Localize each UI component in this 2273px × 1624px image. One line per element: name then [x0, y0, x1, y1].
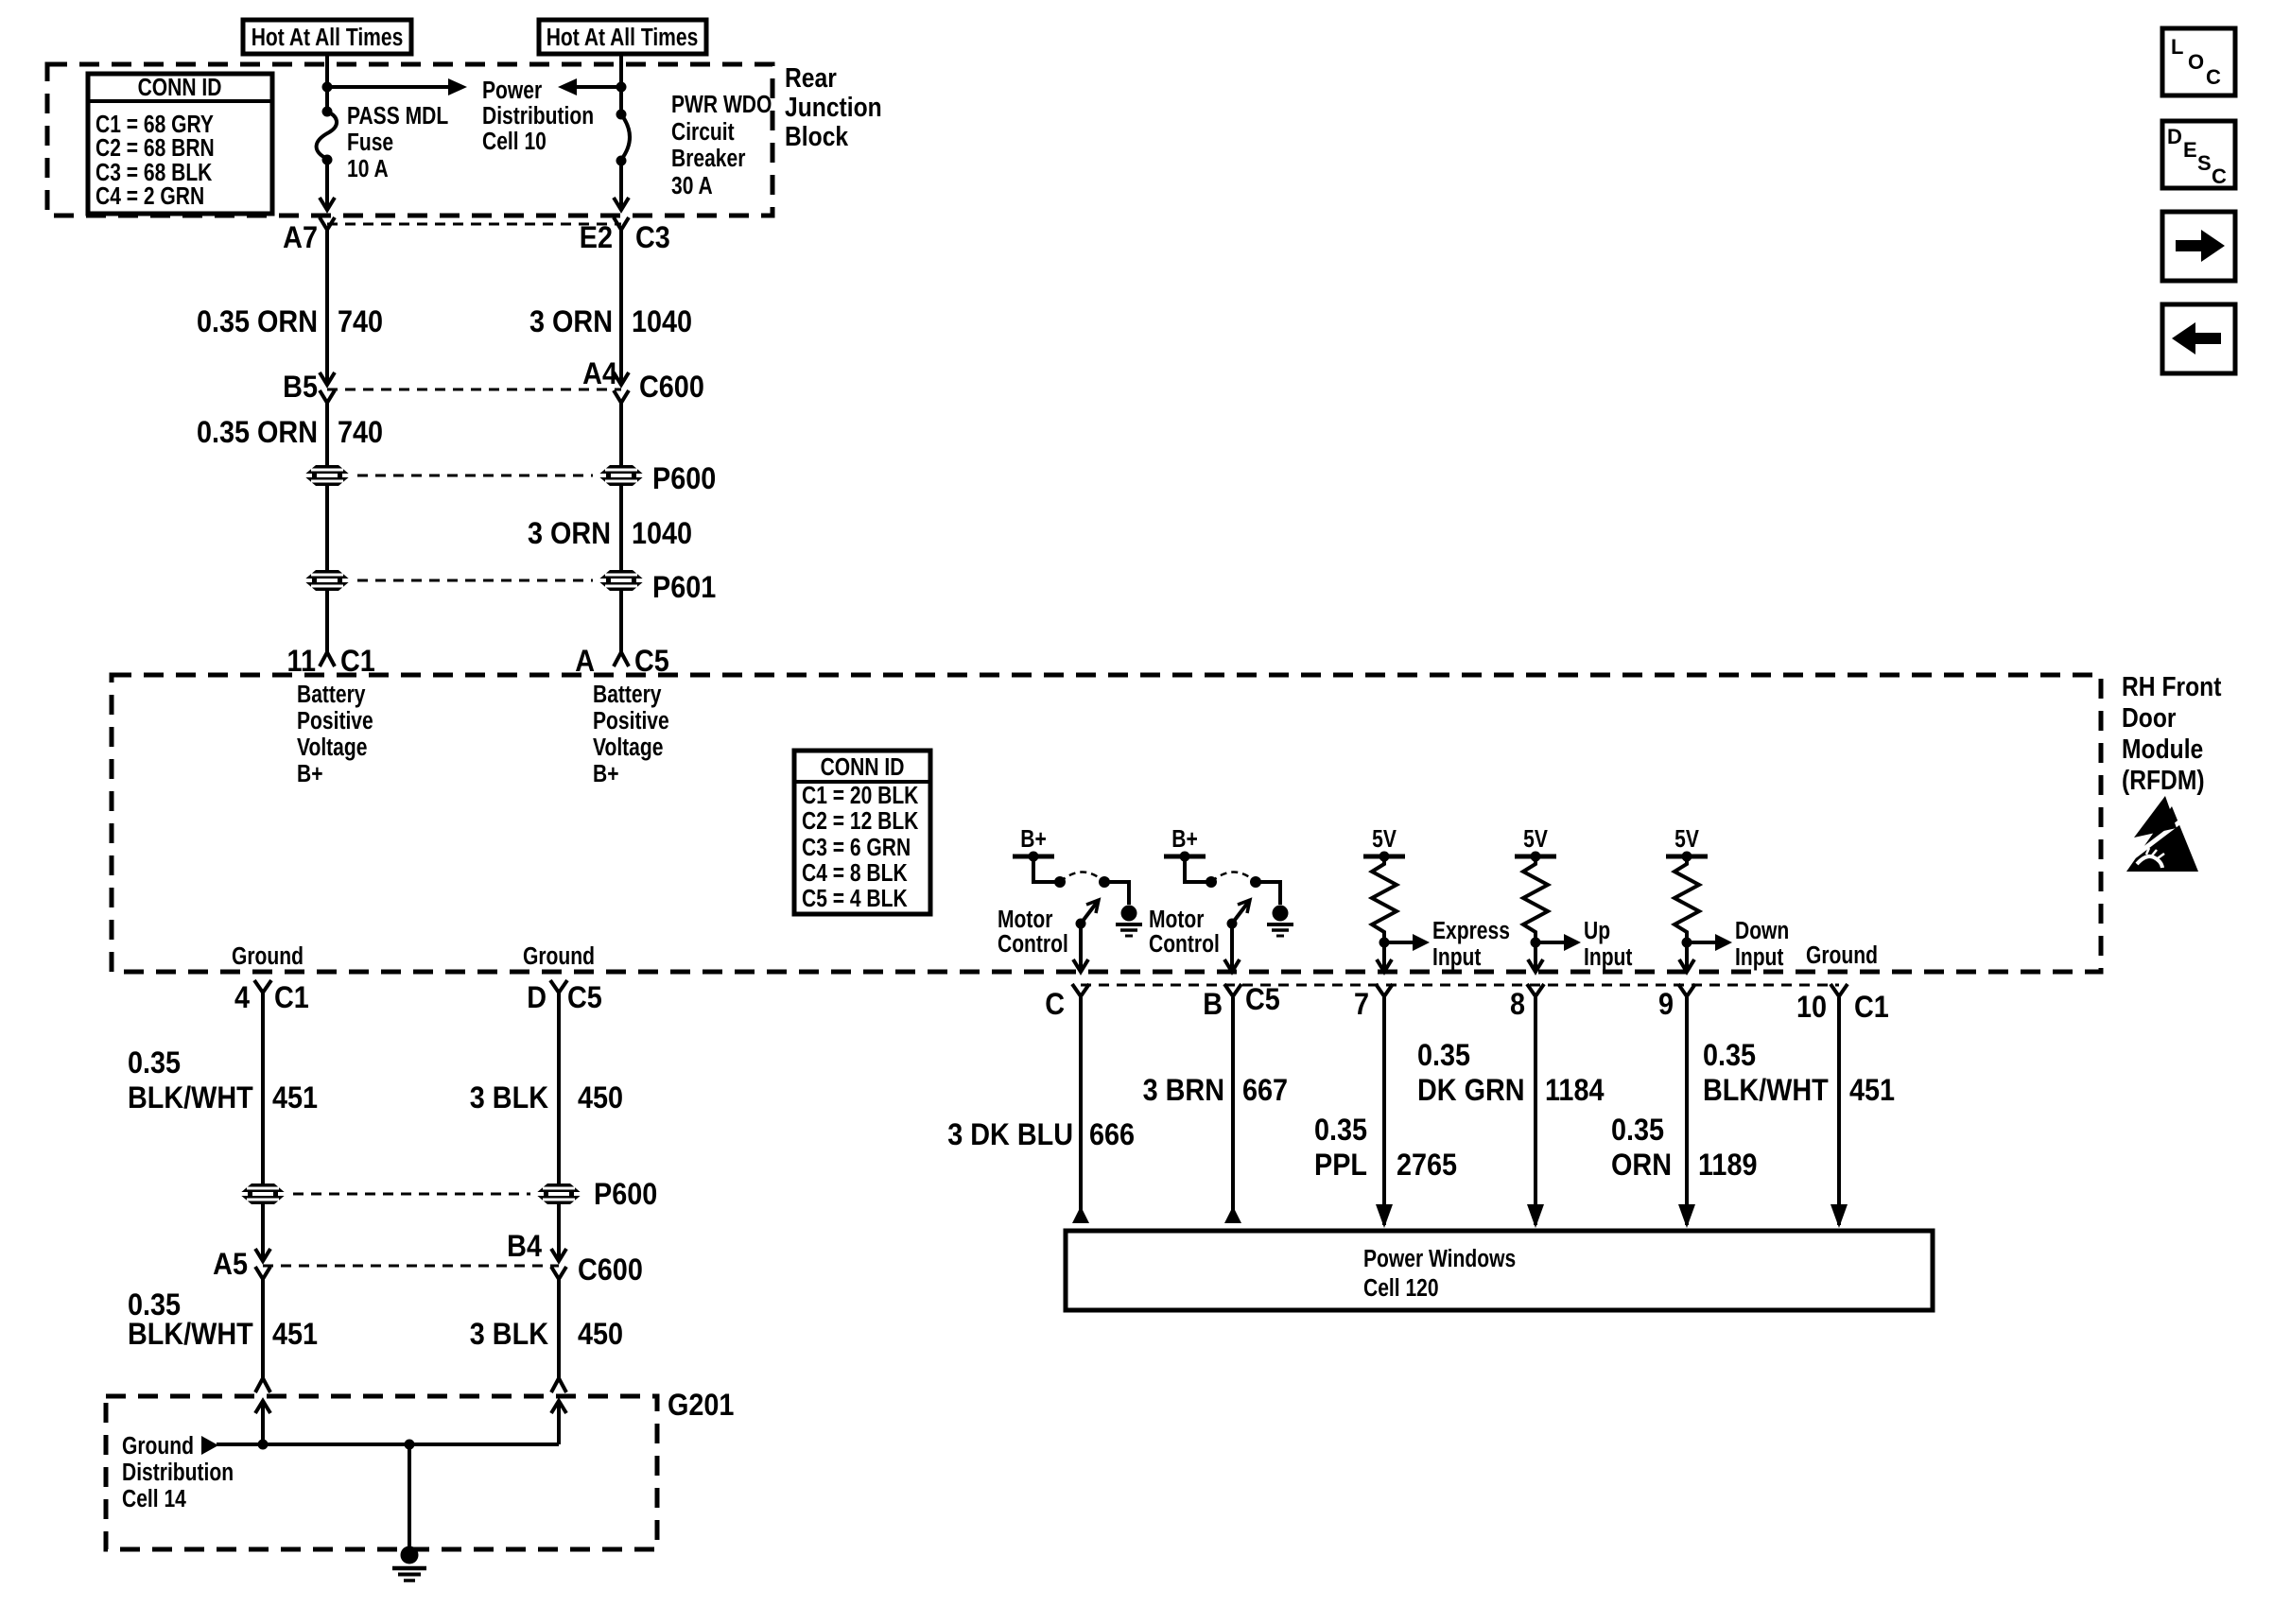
- svg-text:C4 = 2 GRN: C4 = 2 GRN: [95, 183, 204, 211]
- svg-text:Hot At All Times: Hot At All Times: [252, 25, 404, 52]
- svg-text:10: 10: [1796, 991, 1827, 1025]
- resistor (Express Input pull-up): [1372, 856, 1397, 938]
- svg-text:E: E: [2183, 138, 2197, 162]
- wire splice to connector A5: [261, 1204, 265, 1259]
- left arrow legend box: [2162, 304, 2235, 373]
- switch arm 1: [1076, 900, 1100, 929]
- node Express Input tap arrow: [1379, 934, 1431, 951]
- svg-text:C600: C600: [639, 371, 704, 405]
- svg-text:RH Front: RH Front: [2122, 671, 2221, 701]
- connector pin D C5 (ground): [527, 980, 602, 1014]
- svg-text:1040: 1040: [632, 305, 692, 339]
- svg-text:0.35: 0.35: [1703, 1039, 1756, 1073]
- splice P600 lower right: [534, 1183, 583, 1204]
- svg-text:Ground: Ground: [122, 1433, 194, 1460]
- svg-text:Rear: Rear: [785, 62, 837, 93]
- node Up Input tap arrow: [1531, 934, 1582, 951]
- svg-text:Input: Input: [1432, 944, 1482, 972]
- 5V feed (Up): [1515, 826, 1556, 861]
- switch contact dot 2: [1250, 876, 1261, 888]
- wire switch 2 to module pin: [1224, 924, 1240, 972]
- wire contact to ground 1: [1104, 882, 1129, 905]
- switch travel dashed arc 2: [1211, 872, 1256, 883]
- svg-text:C3 = 6 GRN: C3 = 6 GRN: [802, 835, 911, 862]
- label P601: [652, 571, 716, 605]
- wire B+ to switch contact 1: [1033, 856, 1066, 888]
- svg-text:Door: Door: [2122, 702, 2177, 733]
- connector B5: [283, 371, 335, 405]
- junction dot: [322, 82, 333, 93]
- wire segment A4 to splice: [619, 403, 623, 465]
- svg-text:Hot At All Times: Hot At All Times: [547, 25, 699, 52]
- splice P601 left: [303, 570, 352, 591]
- wire 0.35 PPL 2765 (pin 7): [1314, 997, 1457, 1228]
- svg-text:3 BRN: 3 BRN: [1143, 1074, 1224, 1108]
- connector A5: [213, 1248, 270, 1282]
- svg-text:7: 7: [1354, 988, 1369, 1022]
- label PASS MDL Fuse 10 A: [347, 103, 448, 183]
- ground entry arrow right: [551, 1401, 566, 1444]
- svg-text:8: 8: [1510, 988, 1525, 1022]
- svg-text:(RFDM): (RFDM): [2122, 765, 2205, 795]
- svg-text:Express: Express: [1432, 918, 1510, 945]
- ground bus wire: [217, 1443, 559, 1446]
- label Battery Positive Voltage B+ (pin 11): [297, 682, 373, 788]
- wire 0.35 BLK/WHT 451 (A5 to G201): [128, 1279, 318, 1378]
- svg-text:DK GRN: DK GRN: [1417, 1074, 1525, 1108]
- svg-text:C600: C600: [578, 1253, 643, 1287]
- svg-text:Motor: Motor: [1149, 907, 1204, 934]
- svg-text:L: L: [2171, 35, 2183, 59]
- ground feed arrow: [201, 1436, 218, 1455]
- connector pin 10 C1: [1796, 984, 1889, 1024]
- svg-text:A4: A4: [582, 357, 617, 391]
- svg-text:4: 4: [234, 981, 250, 1015]
- wire B+ to switch contact 2: [1185, 856, 1217, 888]
- splice link dashed line P600 lower: [293, 1193, 530, 1196]
- svg-text:Breaker: Breaker: [671, 146, 745, 173]
- svg-text:450: 450: [578, 1318, 623, 1352]
- svg-text:P601: P601: [652, 571, 716, 605]
- label Rear Junction Block: [785, 62, 882, 151]
- node Down Input tap arrow: [1682, 934, 1733, 951]
- wire 0.35 ORN 740: [197, 230, 383, 383]
- DESC legend box: [2162, 121, 2235, 188]
- svg-text:451: 451: [1849, 1074, 1895, 1108]
- switch contact dot 1: [1099, 876, 1110, 888]
- wire to pin A C5: [619, 591, 623, 652]
- svg-text:PASS MDL: PASS MDL: [347, 103, 448, 130]
- svg-text:666: 666: [1089, 1118, 1135, 1152]
- svg-text:Battery: Battery: [593, 682, 662, 709]
- wire arrow from Power Distribution to breaker: [558, 78, 621, 95]
- svg-text:CONN ID: CONN ID: [821, 754, 905, 782]
- wire 0.35 DK GRN 1184 (pin 8): [1417, 997, 1605, 1228]
- svg-text:3 ORN: 3 ORN: [528, 517, 611, 551]
- svg-text:Cell 10: Cell 10: [482, 129, 547, 156]
- wire arrow to Power Distribution: [327, 78, 467, 95]
- svg-text:C1: C1: [274, 981, 309, 1015]
- junction dot: [616, 82, 627, 93]
- Hot At All Times box 1: [243, 20, 411, 54]
- label P600 lower: [594, 1178, 657, 1212]
- svg-text:P600: P600: [652, 462, 716, 496]
- splice P600 right: [597, 465, 646, 486]
- label RH Front Door Module (RFDM): [2122, 671, 2221, 795]
- svg-text:0.35: 0.35: [1611, 1114, 1664, 1148]
- wire 0.35 BLK/WHT 451 (pin 10): [1703, 997, 1895, 1228]
- connector pin 9: [1658, 984, 1695, 1021]
- motor control switch 1: B+ feed: [1013, 826, 1054, 861]
- connector A4 C600: [582, 357, 704, 405]
- ESD sensitivity symbol: [2122, 796, 2198, 872]
- wire resistor to pin: [1679, 942, 1694, 972]
- label Motor Control 1: [998, 907, 1068, 959]
- svg-text:0.35: 0.35: [1417, 1039, 1470, 1073]
- svg-text:Distribution: Distribution: [122, 1460, 234, 1487]
- CONN ID table (junction block): [88, 74, 272, 214]
- svg-text:C2 = 12 BLK: C2 = 12 BLK: [802, 808, 918, 836]
- svg-text:Battery: Battery: [297, 682, 366, 709]
- svg-text:Junction: Junction: [785, 92, 882, 122]
- wire 3 BRN 667 (pin B): [1143, 997, 1288, 1223]
- connector link dashed line B5-A4: [327, 389, 621, 391]
- svg-text:0.35: 0.35: [1314, 1114, 1367, 1148]
- svg-text:E2: E2: [580, 221, 613, 255]
- svg-text:C1: C1: [1854, 991, 1889, 1025]
- svg-text:C5 = 4 BLK: C5 = 4 BLK: [802, 886, 908, 913]
- svg-text:C: C: [2206, 65, 2221, 89]
- svg-text:B4: B4: [507, 1230, 542, 1264]
- svg-text:D: D: [527, 981, 547, 1015]
- wire from Hot box 2: [619, 54, 623, 114]
- svg-text:B5: B5: [283, 371, 318, 405]
- connector pin 7: [1354, 984, 1393, 1021]
- connector pin into G201 right: [551, 1378, 566, 1392]
- Power Windows Cell 120 box: [1066, 1231, 1933, 1310]
- label Ground Distribution Cell 14: [122, 1433, 234, 1513]
- junction dot bus center: [405, 1440, 415, 1450]
- svg-text:Ground: Ground: [232, 943, 304, 971]
- svg-text:Motor: Motor: [998, 907, 1052, 934]
- wire 0.35 BLK/WHT 451 (pin 4 to splice): [128, 992, 318, 1183]
- splice P600 lower left: [238, 1183, 287, 1204]
- ground entry arrow left: [255, 1401, 270, 1444]
- wire from Hot box 1: [325, 54, 329, 112]
- svg-text:C1 = 20 BLK: C1 = 20 BLK: [802, 783, 918, 810]
- svg-text:Circuit: Circuit: [671, 119, 735, 147]
- svg-text:C2 = 68 BRN: C2 = 68 BRN: [95, 135, 215, 163]
- G201 dashed box: [106, 1396, 657, 1549]
- wire 3 BLK 450 (pin D to splice): [470, 992, 623, 1183]
- fuse PASS MDL 10 A: [317, 107, 337, 165]
- label G201: [668, 1389, 735, 1423]
- svg-text:2765: 2765: [1397, 1149, 1457, 1183]
- svg-text:CONN ID: CONN ID: [138, 75, 222, 102]
- splice P600 left: [303, 465, 352, 486]
- svg-text:5V: 5V: [1523, 826, 1548, 854]
- wire bus to ground G201: [408, 1444, 411, 1548]
- svg-text:Power: Power: [482, 78, 542, 105]
- label Ground (pin D): [523, 943, 595, 971]
- label PWR WDO Circuit Breaker 30 A: [671, 92, 772, 200]
- wire splice to connector B4: [557, 1204, 561, 1259]
- 5V feed (Express): [1363, 826, 1405, 861]
- wire 0.35 ORN 740 (second): [197, 403, 383, 465]
- wire to pin 11 C1: [325, 591, 329, 652]
- wire 3 ORN 1040: [529, 230, 692, 383]
- svg-text:Cell 120: Cell 120: [1363, 1275, 1439, 1303]
- svg-text:10 A: 10 A: [347, 156, 389, 183]
- wire switch 1 to module pin: [1073, 924, 1088, 972]
- svg-text:9: 9: [1658, 988, 1674, 1022]
- svg-text:BLK/WHT: BLK/WHT: [1703, 1074, 1829, 1108]
- label Up Input: [1584, 918, 1633, 972]
- svg-text:0.35 ORN: 0.35 ORN: [197, 416, 318, 450]
- label Down Input: [1735, 918, 1789, 972]
- svg-text:450: 450: [578, 1081, 623, 1115]
- connector pin B C5: [1203, 983, 1280, 1022]
- svg-text:5V: 5V: [1674, 826, 1699, 854]
- svg-text:Block: Block: [785, 121, 848, 151]
- LOC legend box: [2162, 28, 2235, 95]
- wire resistor to pin: [1377, 942, 1392, 972]
- ground symbol G201: [392, 1546, 426, 1581]
- svg-text:C: C: [2212, 164, 2227, 188]
- label Power Distribution Cell 10: [482, 78, 594, 156]
- svg-text:O: O: [2188, 50, 2204, 74]
- svg-text:Ground: Ground: [1806, 942, 1878, 970]
- connector pin C: [1045, 984, 1089, 1021]
- resistor (Up Input pull-up): [1523, 856, 1548, 938]
- connector pin into G201 left: [255, 1378, 270, 1392]
- svg-text:Voltage: Voltage: [297, 734, 367, 762]
- svg-text:Input: Input: [1584, 944, 1633, 972]
- svg-text:B+: B+: [593, 761, 618, 788]
- svg-text:C5: C5: [1245, 983, 1280, 1017]
- svg-text:C5: C5: [567, 981, 602, 1015]
- svg-text:PWR WDO: PWR WDO: [671, 92, 772, 119]
- CONN ID table (RFDM): [794, 751, 930, 914]
- connector pin 11 C1: [287, 645, 375, 679]
- svg-text:451: 451: [272, 1081, 318, 1115]
- svg-text:D: D: [2167, 125, 2182, 148]
- svg-text:Distribution: Distribution: [482, 103, 594, 130]
- label Ground (pin 4): [232, 943, 304, 971]
- wire fuse to connector A7: [320, 160, 335, 210]
- Rear Junction Block dashed box: [47, 64, 772, 216]
- svg-text:ORN: ORN: [1611, 1149, 1672, 1183]
- switch travel dashed arc 1: [1060, 872, 1104, 883]
- svg-text:A7: A7: [283, 221, 318, 255]
- connector pin A C5: [575, 645, 669, 679]
- right arrow legend box: [2162, 212, 2235, 281]
- resistor (Down Input pull-up): [1674, 856, 1699, 938]
- svg-text:Module: Module: [2122, 734, 2203, 764]
- svg-text:451: 451: [272, 1318, 318, 1352]
- connector pin 4 C1 (ground): [234, 980, 309, 1014]
- wire 3 DK BLU 666 (pin C): [947, 997, 1135, 1223]
- wire 3 ORN 1040 (between splices): [327, 486, 692, 570]
- svg-text:Down: Down: [1735, 918, 1789, 945]
- svg-text:PPL: PPL: [1314, 1149, 1367, 1183]
- 5V feed (Down): [1666, 826, 1708, 861]
- RFDM dashed box: [112, 675, 2101, 972]
- connector terminal E2 C3: [580, 217, 670, 254]
- ground symbol (switch 2): [1267, 906, 1293, 937]
- Hot At All Times box 2: [539, 20, 706, 54]
- svg-text:Control: Control: [998, 931, 1068, 959]
- connector link dashed line A7-E2: [327, 223, 621, 226]
- label Ground (pin 10): [1806, 942, 1878, 970]
- svg-text:740: 740: [338, 305, 383, 339]
- svg-text:Voltage: Voltage: [593, 734, 663, 762]
- svg-text:C3: C3: [635, 221, 670, 255]
- svg-text:BLK/WHT: BLK/WHT: [128, 1318, 253, 1352]
- svg-text:3 BLK: 3 BLK: [470, 1081, 548, 1115]
- connector B4 C600: [507, 1230, 643, 1287]
- svg-text:Positive: Positive: [297, 708, 373, 735]
- svg-text:Fuse: Fuse: [347, 130, 393, 157]
- connector pin 8: [1510, 984, 1544, 1021]
- svg-text:3 ORN: 3 ORN: [529, 305, 613, 339]
- label P600: [652, 462, 716, 496]
- wire contact to ground 2: [1256, 882, 1280, 905]
- svg-text:0.35 ORN: 0.35 ORN: [197, 305, 318, 339]
- motor control switch 2: B+ feed: [1164, 826, 1206, 861]
- splice link dashed line P601: [357, 579, 593, 582]
- svg-text:P600: P600: [594, 1178, 657, 1212]
- svg-text:A5: A5: [213, 1248, 248, 1282]
- svg-text:Control: Control: [1149, 931, 1220, 959]
- svg-text:1040: 1040: [632, 517, 692, 551]
- connector link dashed line A5-B4: [263, 1265, 559, 1268]
- ground symbol (switch 1): [1116, 906, 1142, 937]
- svg-text:B+: B+: [297, 761, 322, 788]
- svg-text:667: 667: [1242, 1074, 1288, 1108]
- svg-text:C4 = 8 BLK: C4 = 8 BLK: [802, 860, 908, 888]
- label Motor Control 2: [1149, 907, 1220, 959]
- svg-text:G201: G201: [668, 1389, 735, 1423]
- svg-text:Up: Up: [1584, 918, 1610, 945]
- svg-text:740: 740: [338, 416, 383, 450]
- svg-text:B+: B+: [1020, 826, 1046, 854]
- svg-text:5V: 5V: [1372, 826, 1397, 854]
- svg-text:Positive: Positive: [593, 708, 669, 735]
- svg-text:C: C: [1045, 988, 1065, 1022]
- svg-text:B+: B+: [1171, 826, 1197, 854]
- junction dot bus left: [258, 1440, 269, 1450]
- svg-text:Cell 14: Cell 14: [122, 1486, 187, 1513]
- svg-text:Power Windows: Power Windows: [1363, 1246, 1516, 1273]
- wire 0.35 ORN 1189 (pin 9): [1611, 997, 1757, 1228]
- splice link dashed line P600: [357, 475, 593, 477]
- svg-text:S: S: [2197, 151, 2212, 175]
- svg-text:1184: 1184: [1545, 1074, 1605, 1108]
- label Battery Positive Voltage B+ (pin A): [593, 682, 669, 788]
- svg-text:3 DK BLU: 3 DK BLU: [947, 1118, 1073, 1152]
- connector link dashed line C to C1: [1081, 984, 1839, 987]
- svg-text:Input: Input: [1735, 944, 1784, 972]
- circuit breaker PWR WDO 30 A: [616, 110, 631, 166]
- splice P601 right: [597, 570, 646, 591]
- svg-text:Ground: Ground: [523, 943, 595, 971]
- switch arm 2: [1227, 900, 1251, 929]
- svg-text:0.35: 0.35: [128, 1046, 181, 1080]
- wire 3 BLK 450 (B4 to G201): [470, 1279, 623, 1378]
- wire breaker to connector E2: [614, 161, 629, 210]
- label Express Input: [1432, 918, 1510, 972]
- connector terminal A7: [283, 217, 335, 254]
- svg-text:1189: 1189: [1698, 1149, 1757, 1183]
- wire resistor to pin: [1528, 942, 1543, 972]
- svg-text:30 A: 30 A: [671, 173, 713, 200]
- svg-text:BLK/WHT: BLK/WHT: [128, 1081, 253, 1115]
- svg-text:3 BLK: 3 BLK: [470, 1318, 548, 1352]
- svg-text:B: B: [1203, 988, 1223, 1022]
